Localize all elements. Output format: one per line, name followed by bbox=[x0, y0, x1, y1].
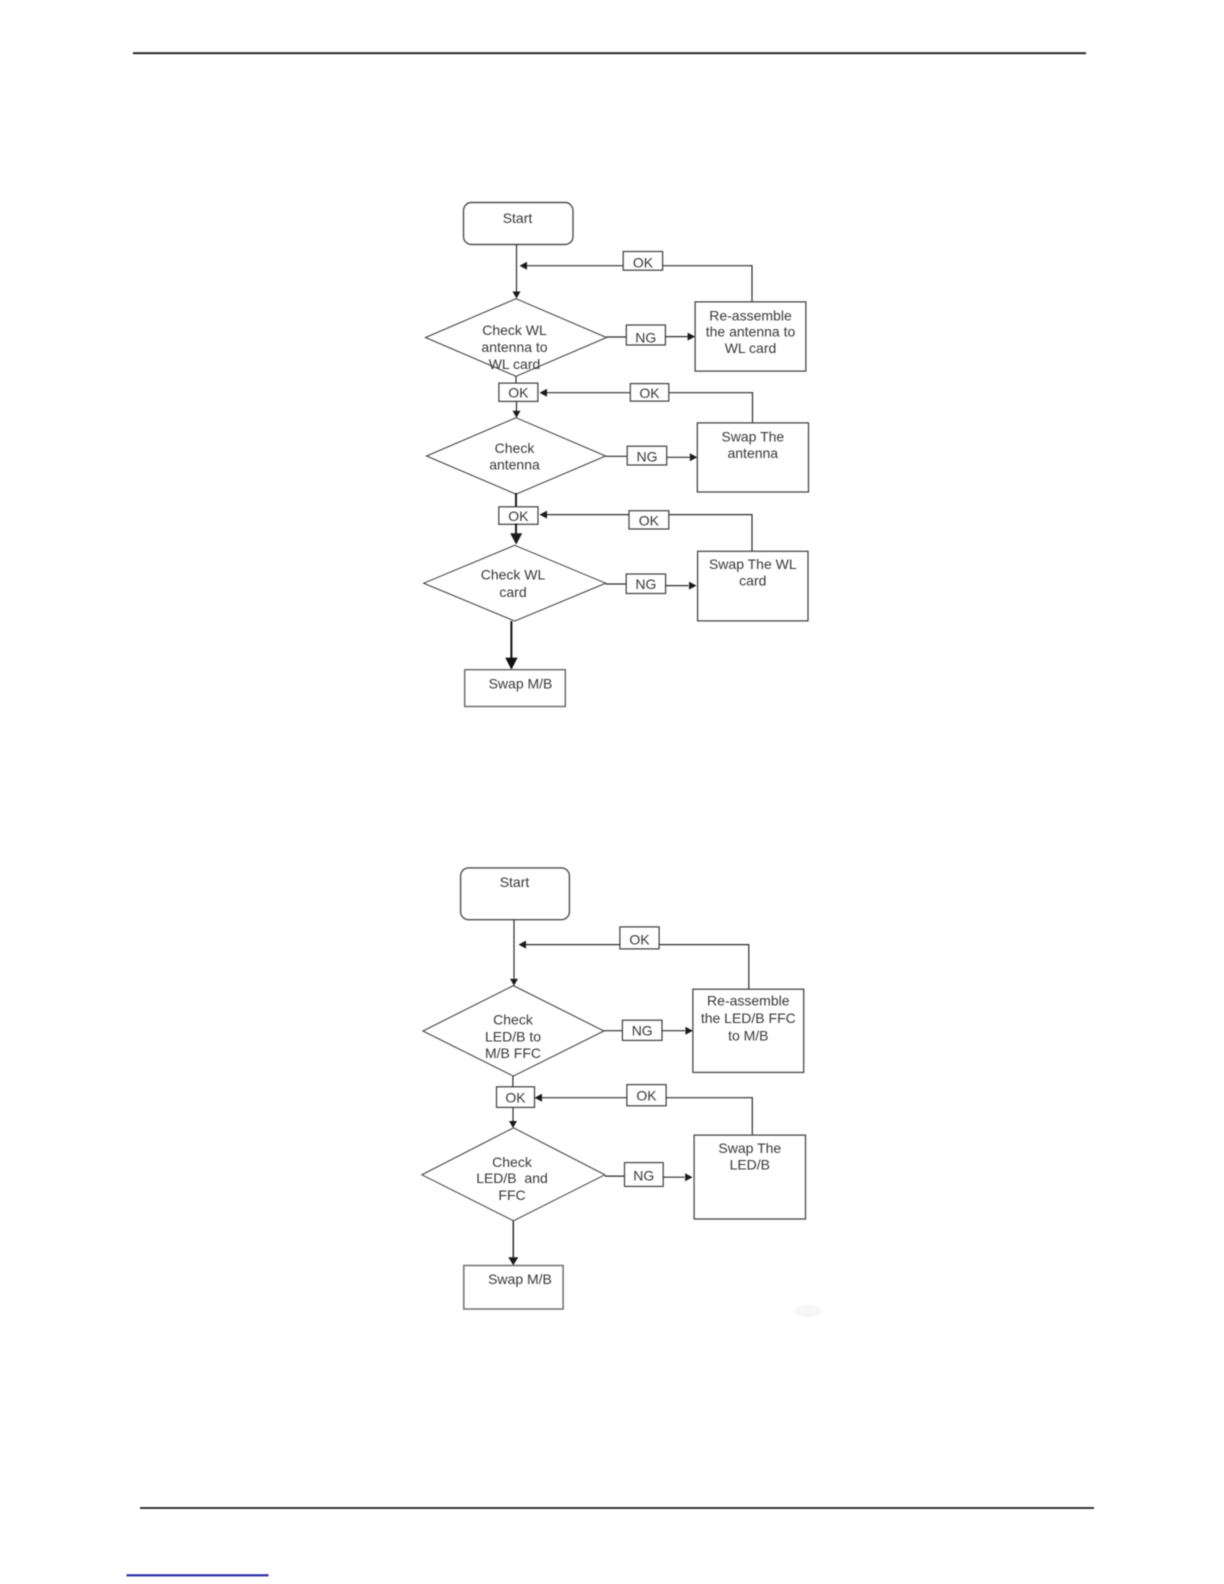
process P1 Re-assemble the antenna to WL card bbox=[695, 302, 806, 371]
wire Start to decision 1 bbox=[516, 245, 518, 292]
svg-text:Swap M/B: Swap M/B bbox=[489, 676, 553, 692]
svg-text:FFC: FFC bbox=[498, 1187, 525, 1203]
process C2P1 Re-assemble the LED/B FFC to M/B bbox=[693, 989, 804, 1072]
wire OK feedback 2 horizontal bbox=[547, 392, 753, 394]
wire OK feedback 3 vertical bbox=[751, 514, 753, 551]
svg-text:Check: Check bbox=[495, 440, 536, 456]
svg-text:antenna: antenna bbox=[489, 457, 540, 473]
svg-text:OK: OK bbox=[639, 385, 660, 401]
svg-text:NG: NG bbox=[633, 1167, 654, 1183]
top rule bbox=[133, 52, 1086, 54]
wire OK to decision C2D2 bbox=[512, 1107, 514, 1121]
process C2P2 Swap The LED/B bbox=[694, 1135, 805, 1219]
wire C2D1 bottom to OK box bbox=[512, 1076, 514, 1087]
svg-text:the antenna to: the antenna to bbox=[706, 324, 796, 340]
arrowhead into P2 bbox=[690, 453, 698, 461]
decision D2 Check antenna bbox=[427, 418, 606, 495]
wire OK feedback c2-1 vertical bbox=[748, 944, 750, 989]
wire D2 to NG2 bbox=[606, 455, 628, 457]
label OK feedback 1 bbox=[623, 252, 662, 271]
svg-text:Swap M/B: Swap M/B bbox=[488, 1271, 552, 1287]
arrowhead OK feedback 2 bbox=[540, 389, 548, 397]
wire C2D2 bottom to Swap M/B bbox=[512, 1221, 514, 1258]
wire D1 bottom to OK2 bbox=[515, 376, 517, 383]
wire NG to process C2P2 bbox=[663, 1176, 684, 1178]
svg-text:Re-assemble: Re-assemble bbox=[707, 993, 790, 1009]
svg-text:LED/B: LED/B bbox=[730, 1156, 770, 1172]
svg-text:WL card: WL card bbox=[489, 356, 541, 372]
svg-text:Swap The WL: Swap The WL bbox=[709, 556, 797, 572]
label NG1 bbox=[626, 325, 665, 345]
arrowhead into C2D1 bbox=[510, 979, 518, 986]
label NG2 bbox=[627, 446, 667, 465]
process Swap M/B (chart 2) bbox=[464, 1266, 563, 1310]
wire Start to decision C2D1 bbox=[513, 920, 515, 979]
wire OK2 to decision D2 bbox=[516, 401, 518, 411]
wire C2D2 to NG bbox=[605, 1175, 625, 1177]
svg-text:Check: Check bbox=[493, 1011, 534, 1027]
svg-text:LED/B and: LED/B and bbox=[476, 1170, 548, 1186]
process P2 Swap The antenna bbox=[697, 423, 808, 492]
label OK feedback 3 bbox=[629, 511, 669, 529]
wire NG to process C2P1 bbox=[662, 1030, 685, 1032]
arrowhead OK feedback 3 bbox=[540, 511, 548, 519]
wire OK feedback 1 vertical bbox=[751, 265, 753, 302]
svg-text:Re-assemble: Re-assemble bbox=[709, 307, 792, 323]
process Swap M/B (chart 1) bbox=[465, 670, 566, 707]
svg-text:OK: OK bbox=[629, 931, 650, 947]
wire NG1 to process P1 bbox=[665, 336, 687, 338]
label OK4 below D2 bbox=[499, 507, 538, 525]
label NG c2-1 bbox=[622, 1020, 662, 1040]
arrowhead into C2P2 bbox=[685, 1173, 693, 1181]
wire OK feedback 3 horizontal bbox=[547, 514, 752, 516]
svg-text:NG: NG bbox=[637, 448, 658, 464]
label NG c2-2 bbox=[625, 1163, 664, 1187]
svg-text:NG: NG bbox=[635, 576, 656, 592]
svg-text:NG: NG bbox=[632, 1023, 653, 1039]
arrowhead OK feedback 1 bbox=[520, 262, 528, 270]
svg-text:Check WL: Check WL bbox=[481, 566, 546, 582]
arrowhead OK feedback c2-2 bbox=[535, 1094, 543, 1102]
terminator Start (chart 1) bbox=[464, 203, 574, 245]
svg-text:Start: Start bbox=[503, 210, 533, 226]
svg-text:Start: Start bbox=[500, 874, 530, 890]
arrowhead into Swap M/B (chart 2) bbox=[508, 1257, 518, 1265]
wire OK feedback c2-2 horizontal bbox=[542, 1097, 752, 1099]
svg-text:OK: OK bbox=[508, 385, 529, 401]
wire OK feedback c2-1 horizontal bbox=[526, 944, 749, 946]
svg-text:M/B FFC: M/B FFC bbox=[485, 1045, 541, 1061]
wire D3 to NG3 bbox=[606, 583, 627, 585]
svg-text:OK: OK bbox=[639, 513, 660, 529]
svg-text:LED/B to: LED/B to bbox=[485, 1029, 541, 1045]
arrowhead into decision 1 bbox=[513, 292, 521, 299]
svg-text:card: card bbox=[499, 584, 526, 600]
label OK below C2D1 bbox=[497, 1087, 535, 1108]
wire D1 to NG1 bbox=[607, 336, 627, 338]
decision D3 Check WL card bbox=[424, 545, 606, 621]
svg-text:NG: NG bbox=[635, 329, 656, 345]
svg-text:antenna to: antenna to bbox=[481, 339, 547, 355]
svg-text:OK: OK bbox=[505, 1090, 526, 1106]
wire OK feedback 2 vertical bbox=[752, 392, 754, 423]
decision D1 Check WL antenna to WL card bbox=[426, 299, 607, 377]
wire D2 bottom to OK4 bbox=[515, 493, 517, 508]
svg-text:OK: OK bbox=[636, 1088, 657, 1104]
arrowhead into D3 bbox=[510, 533, 522, 544]
decision C2D1 Check LED/B to M/B FFC bbox=[423, 986, 604, 1077]
arrowhead into D2 bbox=[513, 411, 521, 418]
svg-text:Check: Check bbox=[492, 1154, 533, 1170]
arrowhead into P1 bbox=[688, 333, 696, 341]
svg-text:Check WL: Check WL bbox=[482, 322, 547, 338]
svg-text:antenna: antenna bbox=[727, 445, 778, 461]
svg-text:Swap The: Swap The bbox=[721, 429, 784, 445]
arrowhead OK feedback c2-1 bbox=[519, 941, 527, 949]
label OK feedback c2-1 bbox=[620, 927, 659, 949]
wire D3 bottom thick arrow shaft bbox=[510, 621, 512, 658]
label OK feedback c2-2 bbox=[627, 1085, 666, 1106]
arrowhead into C2P1 bbox=[685, 1027, 693, 1035]
footer link underline bbox=[127, 1574, 269, 1576]
label OK2 below D1 bbox=[499, 383, 538, 401]
svg-text:OK: OK bbox=[633, 255, 654, 271]
wire C2D1 to NG bbox=[604, 1030, 623, 1032]
svg-text:OK: OK bbox=[508, 508, 529, 524]
decision C2D2 Check LED/B and FFC bbox=[422, 1128, 605, 1221]
wire OK feedback c2-2 vertical bbox=[751, 1097, 753, 1135]
svg-text:Swap The: Swap The bbox=[718, 1140, 781, 1156]
svg-text:WL card: WL card bbox=[725, 340, 777, 356]
wire OK feedback 1 horizontal bbox=[527, 265, 752, 267]
wire NG3 to process P3 bbox=[666, 585, 689, 587]
svg-text:card: card bbox=[739, 573, 766, 589]
svg-text:to M/B: to M/B bbox=[728, 1027, 768, 1043]
arrowhead big into Swap M/B bbox=[505, 658, 517, 670]
wire OK4 to decision D3 bbox=[515, 524, 517, 535]
terminator Start (chart 2) bbox=[461, 868, 570, 920]
label OK feedback 2 bbox=[630, 384, 669, 402]
faint smudge bbox=[794, 1305, 822, 1317]
process P3 Swap The WL card bbox=[698, 551, 808, 621]
svg-text:the LED/B FFC: the LED/B FFC bbox=[701, 1010, 796, 1026]
arrowhead into C2D2 bbox=[509, 1121, 517, 1128]
bottom rule bbox=[140, 1507, 1094, 1509]
wire NG2 to process P2 bbox=[667, 456, 690, 458]
label NG3 bbox=[626, 574, 665, 594]
arrowhead into P3 bbox=[689, 582, 697, 590]
